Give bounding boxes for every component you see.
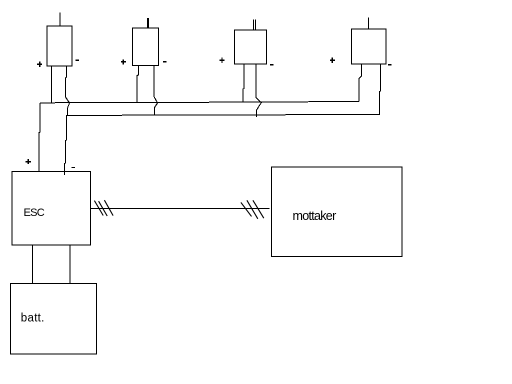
hash slashes on signal wire near ESC xyxy=(94,200,113,216)
motor M3 minus label xyxy=(270,64,274,66)
motor M4 shaft xyxy=(368,18,370,30)
wire top bus to ESC plus terminal xyxy=(39,103,40,172)
motor M1 xyxy=(47,26,72,66)
motor M2 xyxy=(133,28,159,66)
motor M2 plus label xyxy=(121,59,126,64)
mottaker receiver box xyxy=(272,167,402,257)
wire ESC to battery right xyxy=(69,245,71,283)
ESC plus label xyxy=(26,159,31,164)
wire M2 plus to top bus xyxy=(137,66,139,103)
svg-text:ESC: ESC xyxy=(24,207,45,219)
wire bottom bus to ESC minus terminal xyxy=(64,115,66,175)
wire M4 minus to bottom bus xyxy=(379,64,382,114)
motor M3 xyxy=(235,30,267,64)
motor M4 xyxy=(352,29,386,64)
wire M4 plus to top bus xyxy=(359,64,362,101)
ESC box U1 xyxy=(12,172,91,246)
motor M3 plus label xyxy=(219,58,224,63)
motor M4 plus label xyxy=(330,58,335,63)
wire M3 plus to top bus xyxy=(242,64,245,103)
motor M2 minus label xyxy=(163,61,167,63)
motor M3 shaft xyxy=(253,20,255,30)
ESC minus label xyxy=(72,167,76,169)
wire M3 minus to bottom bus xyxy=(256,64,261,117)
svg-text:mottaker: mottaker xyxy=(293,209,337,223)
signal wire ESC to mottaker xyxy=(91,208,270,210)
wire M2 minus to bottom bus xyxy=(154,66,158,115)
motor M2 shaft xyxy=(147,18,149,28)
motor M1 plus label xyxy=(37,62,42,67)
motor M4 minus label xyxy=(388,64,392,66)
top bus wire (plus rail) xyxy=(40,102,359,103)
svg-text:batt.: batt. xyxy=(21,313,45,325)
hash slashes on signal wire near mottaker xyxy=(241,200,264,219)
wire M1 plus to top bus xyxy=(51,66,53,103)
wire M1 minus to bottom bus xyxy=(66,66,70,115)
battery box xyxy=(11,283,97,354)
motor M1 minus label xyxy=(76,59,80,61)
motor M1 shaft xyxy=(59,13,61,27)
bottom bus wire (minus rail) xyxy=(67,114,380,115)
wire ESC to battery left xyxy=(31,245,33,283)
